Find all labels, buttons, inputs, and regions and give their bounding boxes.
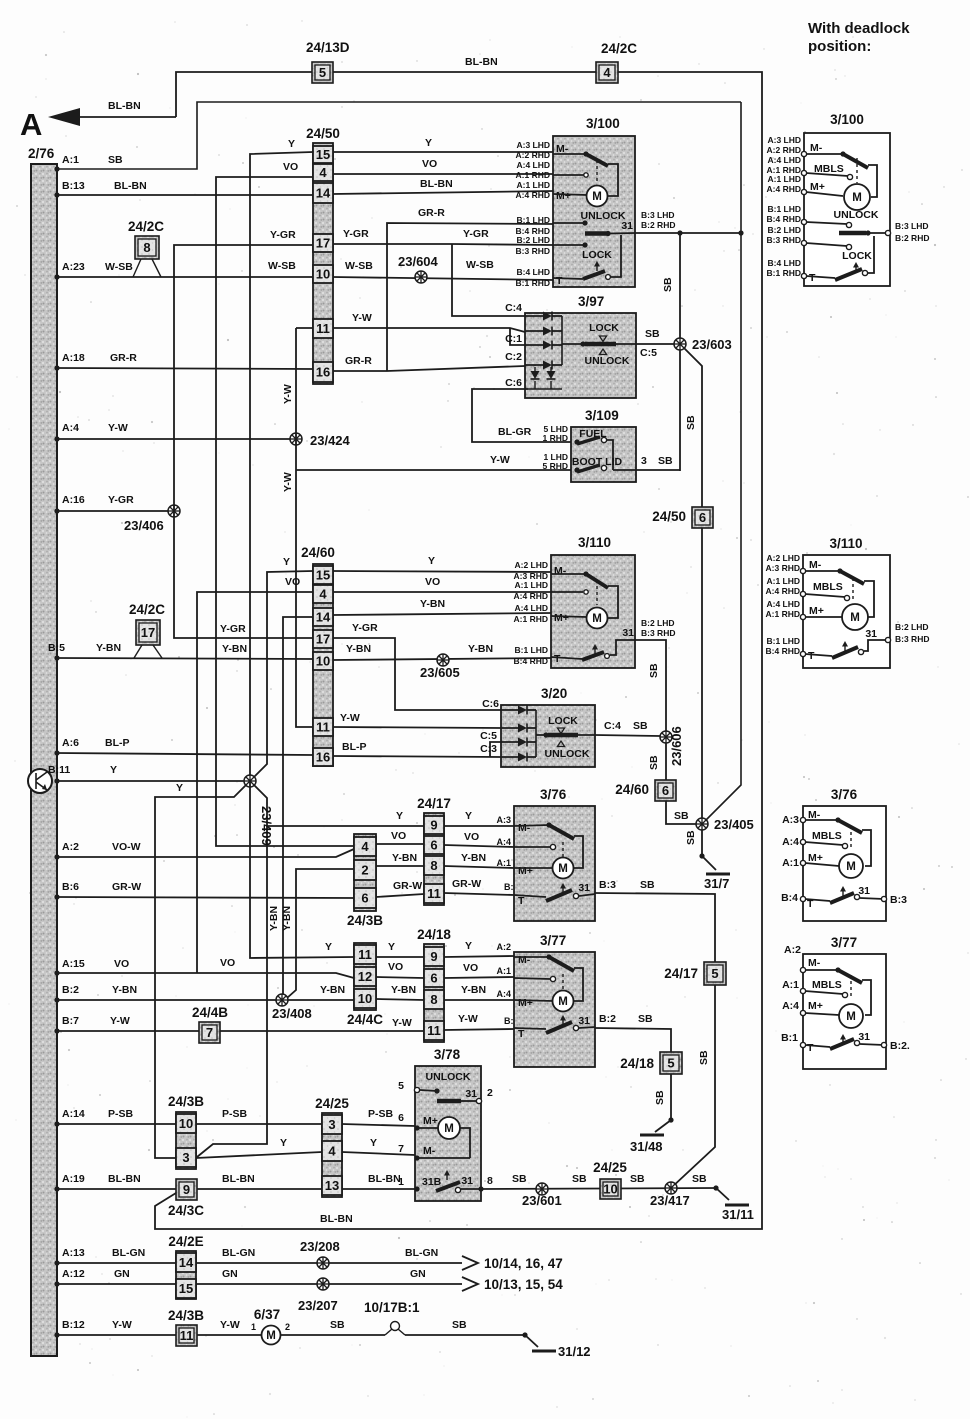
svg-text:4: 4 <box>319 587 327 602</box>
svg-text:SB: SB <box>698 1050 710 1065</box>
svg-text:M+: M+ <box>810 181 825 193</box>
wire B:13 BL-BN to 24/50-14 <box>54 180 313 198</box>
svg-text:10/13, 15, 54: 10/13, 15, 54 <box>484 1277 563 1292</box>
svg-text:SB: SB <box>330 1319 345 1331</box>
svg-text:3/110: 3/110 <box>578 535 611 550</box>
svg-text:8: 8 <box>430 992 437 1007</box>
connector 24/18 pin 5 (inline) <box>620 1052 682 1074</box>
svg-text:GN: GN <box>410 1268 426 1280</box>
svg-text:1: 1 <box>251 1322 256 1332</box>
svg-text:SB: SB <box>512 1173 527 1185</box>
svg-text:SB: SB <box>685 830 697 845</box>
wire A:4 Y-W to splice 23/424 <box>54 422 296 442</box>
wire VO 24/50-4 to 3/100 <box>333 158 553 174</box>
svg-text:24/4B: 24/4B <box>192 1005 228 1020</box>
svg-text:M-: M- <box>518 822 531 834</box>
wire Y 24/50-15 to 3/100 M- <box>333 137 553 152</box>
svg-text:Y-BN: Y-BN <box>346 643 371 655</box>
svg-text:M+: M+ <box>518 997 533 1009</box>
connector 24/2C pin 17 with legs <box>129 602 165 658</box>
wire 3/20 C:4 output SB to splice 23/606 <box>595 720 660 736</box>
wire A:1 SB to right side <box>54 102 741 172</box>
wire Y-BN riser 24/3B-2 down to B:2 row <box>281 869 354 998</box>
svg-text:23/605: 23/605 <box>420 665 460 680</box>
svg-text:SB: SB <box>633 720 648 732</box>
svg-text:T: T <box>807 1042 814 1054</box>
wire SB 23/606 down to 24/60-6 and 23/405 <box>648 743 702 824</box>
svg-text:B:3 RHD: B:3 RHD <box>895 634 929 644</box>
svg-text:6: 6 <box>662 783 669 798</box>
svg-text:SB: SB <box>658 455 673 467</box>
connector strip 24/50 <box>306 126 340 384</box>
svg-text:BL-BN: BL-BN <box>320 1213 353 1225</box>
splice 23/408 <box>272 994 312 1021</box>
svg-text:Y-BN: Y-BN <box>281 906 293 931</box>
node A arrow <box>20 100 176 142</box>
svg-text:1: 1 <box>398 1176 404 1188</box>
svg-text:Y-W: Y-W <box>112 1319 132 1331</box>
svg-text:10: 10 <box>358 991 372 1006</box>
svg-text:10: 10 <box>179 1116 193 1131</box>
svg-text:31: 31 <box>622 627 634 639</box>
svg-text:24/3B: 24/3B <box>347 913 383 928</box>
svg-text:Y-W: Y-W <box>392 1017 412 1029</box>
svg-text:24/4C: 24/4C <box>347 1012 383 1027</box>
svg-text:M: M <box>444 1123 454 1135</box>
wire Y-GR 24/60-17 to 3/20 C:6 <box>333 622 501 710</box>
wire Y branch to 24/60-15 <box>250 556 313 781</box>
svg-text:A:23: A:23 <box>62 261 85 273</box>
wire 3/78 output 8 SB to splices and ground 31/11 <box>481 1173 716 1189</box>
svg-text:BL-GN: BL-GN <box>222 1247 255 1259</box>
actuator 3/110 with deadlock <box>766 536 930 668</box>
connector strip 24/2E (cells 14,15) <box>168 1234 203 1299</box>
svg-text:5: 5 <box>711 966 718 981</box>
wire 3/77 output B:2 SB to 24/18-5 and ground 31/48 <box>595 1013 671 1052</box>
wire Y-BN 24/17-8 to 3/76 M+ <box>444 852 514 868</box>
svg-text:A:1: A:1 <box>62 154 79 166</box>
svg-text:A:2: A:2 <box>784 944 801 956</box>
wire BL-P 24/60-16 to 3/20 C:3 <box>333 741 501 757</box>
splice 23/406 <box>124 505 180 533</box>
svg-text:LOCK: LOCK <box>589 322 619 334</box>
wire BL-BN outer loop (top / right / bottom) <box>155 56 762 1229</box>
svg-text:14: 14 <box>179 1255 194 1270</box>
svg-text:M+: M+ <box>556 190 571 202</box>
connector 24/2C pin 4 (inline, top) <box>596 41 637 83</box>
svg-text:B:2: B:2 <box>599 1013 616 1025</box>
wire SB to ground 31/12 <box>405 1319 538 1347</box>
svg-text:VO: VO <box>285 576 300 588</box>
wire A:15 VO to 24/4C-12 <box>54 957 354 978</box>
svg-text:SB: SB <box>630 1173 645 1185</box>
symbol on bar (sensor) at B:11 <box>28 769 52 793</box>
svg-text:VO: VO <box>391 830 406 842</box>
svg-text:B:1 LHD: B:1 LHD <box>514 645 548 655</box>
svg-text:Y-GR: Y-GR <box>343 228 369 240</box>
wire BL-BN 24/25-13 to 3/78 pin 1 <box>342 1173 415 1189</box>
svg-text:Y-W: Y-W <box>458 1013 478 1025</box>
svg-text:Y-BN: Y-BN <box>461 984 486 996</box>
svg-text:A:2: A:2 <box>62 841 79 853</box>
svg-text:GN: GN <box>114 1268 130 1280</box>
svg-text:15: 15 <box>316 147 330 162</box>
svg-text:Y: Y <box>396 810 403 822</box>
wire Y-BN 24/4C-10 to 24/18-8 <box>376 984 424 1000</box>
ground 31/7 <box>704 874 730 891</box>
svg-text:SB: SB <box>572 1173 587 1185</box>
svg-text:2: 2 <box>361 863 368 878</box>
wire A:23 W-SB to 24/50-10 <box>54 260 313 280</box>
svg-text:A:4: A:4 <box>496 989 511 999</box>
svg-text:B:3: B:3 <box>890 894 907 906</box>
svg-text:A:13: A:13 <box>62 1247 85 1259</box>
connector strip 24/60 <box>301 545 335 766</box>
svg-text:17: 17 <box>141 625 155 640</box>
svg-text:3/77: 3/77 <box>540 933 566 948</box>
svg-text:8: 8 <box>487 1175 493 1187</box>
svg-text:C:5: C:5 <box>480 730 497 742</box>
wire BL-BN 24/3C-9 to 24/25-13 <box>197 1173 322 1189</box>
svg-text:4: 4 <box>319 165 327 180</box>
svg-text:B:2 LHD: B:2 LHD <box>516 235 550 245</box>
actuator 3/76 (left rear door lock motor) <box>496 787 595 921</box>
svg-text:A:1 RHD: A:1 RHD <box>516 170 550 180</box>
svg-text:B:4 LHD: B:4 LHD <box>516 267 550 277</box>
svg-text:Y: Y <box>288 138 295 150</box>
splice 23/603 <box>674 337 732 352</box>
svg-text:Y: Y <box>465 810 472 822</box>
svg-text:24/3C: 24/3C <box>168 1203 204 1218</box>
wire W-SB 24/50-10 to 3/100 T <box>333 259 553 280</box>
svg-text:Y-GR: Y-GR <box>108 494 134 506</box>
svg-text:23/406: 23/406 <box>124 518 164 533</box>
svg-text:M-: M- <box>518 954 531 966</box>
svg-text:A:1 LHD: A:1 LHD <box>767 174 801 184</box>
svg-text:Y-BN: Y-BN <box>461 852 486 864</box>
svg-text:SB: SB <box>654 1090 666 1105</box>
svg-text:SB: SB <box>662 277 674 292</box>
svg-text:B:1 LHD: B:1 LHD <box>766 636 800 646</box>
svg-text:M: M <box>558 863 568 875</box>
connector 24/3B pin 11 (inline) <box>168 1308 204 1346</box>
svg-text:P-SB: P-SB <box>222 1108 248 1120</box>
svg-text:23/409: 23/409 <box>259 806 274 846</box>
svg-text:Y: Y <box>465 940 472 952</box>
svg-text:BL-BN: BL-BN <box>368 1173 401 1185</box>
wire Y-W branch to 3/109 BOOT LID <box>296 454 571 470</box>
svg-text:B:2 LHD: B:2 LHD <box>767 225 801 235</box>
svg-text:Y-BN: Y-BN <box>96 642 121 654</box>
svg-text:M+: M+ <box>809 605 824 617</box>
splice 23/405 <box>696 817 754 832</box>
svg-text:BL-BN: BL-BN <box>108 100 141 112</box>
splice 23/605 <box>420 654 460 680</box>
svg-text:23/604: 23/604 <box>398 254 439 269</box>
wire BL-GR 3/97 C:6 to 3/109 FUEL <box>472 389 571 442</box>
svg-text:B:1 RHD: B:1 RHD <box>516 278 550 288</box>
svg-text:Y-W: Y-W <box>340 712 360 724</box>
wire 3/110 output 31 SB to splice 23/606 <box>635 618 675 731</box>
svg-text:10/14, 16, 47: 10/14, 16, 47 <box>484 1256 563 1271</box>
svg-text:15: 15 <box>316 568 330 583</box>
svg-text:Y-BN: Y-BN <box>268 906 280 931</box>
wire VO 24/4C-12 to 24/18-6 <box>376 961 424 978</box>
wire B:7 Y-W to 24/18-11 <box>54 1015 199 1034</box>
svg-text:LOCK: LOCK <box>842 250 872 262</box>
wire A:13 BL-GN row <box>54 1247 176 1266</box>
svg-text:9: 9 <box>183 1182 190 1197</box>
svg-text:5 RHD: 5 RHD <box>542 461 568 471</box>
wire Y riser continue to 24/4C-11 <box>250 781 354 958</box>
svg-text:C:6: C:6 <box>482 698 499 710</box>
connector 24/25 pin 10 (inline) <box>593 1160 627 1199</box>
motor 6/37 (aerial) <box>197 1307 290 1345</box>
svg-text:B:3 RHD: B:3 RHD <box>516 246 550 256</box>
wire Y-W 24/4B-7 to 24/18-11 <box>220 1017 424 1031</box>
svg-text:Y: Y <box>110 764 117 776</box>
wire Y-BN riser 24/60-14 to splice 23/408 <box>268 617 313 1000</box>
svg-text:Y-W: Y-W <box>220 1319 240 1331</box>
wire BL-GN to arrow 10/14,16,47 <box>196 1247 563 1271</box>
svg-text:A:4 LHD: A:4 LHD <box>516 160 550 170</box>
svg-text:BL-P: BL-P <box>105 737 130 749</box>
svg-text:With deadlock: With deadlock <box>808 20 910 37</box>
svg-text:24/2E: 24/2E <box>168 1234 203 1249</box>
wire Y 24/3B-3 to 24/25-4 <box>196 1137 322 1158</box>
svg-text:11: 11 <box>316 321 330 336</box>
svg-text:12: 12 <box>358 969 372 984</box>
svg-text:5: 5 <box>319 65 326 80</box>
svg-text:A:4 RHD: A:4 RHD <box>514 591 548 601</box>
svg-text:6: 6 <box>699 510 706 525</box>
svg-text:MBLS: MBLS <box>812 979 842 991</box>
svg-text:A:4: A:4 <box>496 837 511 847</box>
svg-text:6: 6 <box>361 891 368 906</box>
svg-text:B:3 RHD: B:3 RHD <box>641 628 675 638</box>
svg-text:10: 10 <box>316 267 330 282</box>
svg-text:3/76: 3/76 <box>540 787 567 802</box>
svg-text:24/18: 24/18 <box>417 927 451 942</box>
wire SB from 23/603 down to boot lid row <box>679 350 681 471</box>
svg-text:VO: VO <box>463 962 478 974</box>
svg-text:24/60: 24/60 <box>301 545 335 560</box>
wire Y branch left to 24/3B-3 riser <box>155 781 250 1158</box>
svg-text:8: 8 <box>143 240 150 255</box>
svg-text:VO: VO <box>220 957 235 969</box>
svg-text:A:4 RHD: A:4 RHD <box>766 586 800 596</box>
svg-text:UNLOCK: UNLOCK <box>585 355 630 367</box>
svg-text:UNLOCK: UNLOCK <box>545 748 590 760</box>
ground 31/48 <box>630 1135 664 1154</box>
svg-text:BL-P: BL-P <box>342 741 367 753</box>
svg-text:W-SB: W-SB <box>268 260 296 272</box>
svg-text:A:1: A:1 <box>782 979 799 991</box>
svg-text:C:2: C:2 <box>505 351 522 363</box>
svg-text:24/60: 24/60 <box>615 782 649 797</box>
svg-text:A:4 RHD: A:4 RHD <box>767 184 801 194</box>
svg-text:31/11: 31/11 <box>722 1207 754 1222</box>
svg-text:31: 31 <box>865 628 877 640</box>
actuator 3/77 (right rear door lock motor) <box>496 933 595 1067</box>
svg-text:11: 11 <box>427 886 441 901</box>
svg-text:C:4: C:4 <box>604 720 621 732</box>
svg-text:9: 9 <box>430 818 437 833</box>
svg-text:B:2 LHD: B:2 LHD <box>641 618 675 628</box>
svg-text:GR-W: GR-W <box>112 881 141 893</box>
svg-text:23/417: 23/417 <box>650 1193 690 1208</box>
svg-text:SB: SB <box>648 755 660 770</box>
svg-text:VO: VO <box>114 958 129 970</box>
wire SB from 23/603 diagonal to long vertical <box>684 348 702 824</box>
svg-text:BL-BN: BL-BN <box>465 56 498 68</box>
svg-text:B:2 RHD: B:2 RHD <box>641 220 675 230</box>
svg-text:SB: SB <box>645 328 660 340</box>
svg-text:B:11: B:11 <box>48 764 70 776</box>
connector 24/17 pin 5 (inline) <box>664 962 726 985</box>
svg-text:Y-BN: Y-BN <box>420 598 445 610</box>
svg-text:17: 17 <box>316 632 330 647</box>
svg-text:A:4 LHD: A:4 LHD <box>766 599 800 609</box>
connector strip 24/3B bottom (cells 10,3) <box>168 1094 204 1169</box>
svg-text:M+: M+ <box>554 612 569 624</box>
connector strip 24/3B (cells 4,2,6) <box>347 834 383 928</box>
svg-text:2: 2 <box>487 1087 493 1099</box>
svg-text:SB: SB <box>648 663 660 678</box>
wire Y-GR 24/50-17 to 3/100 with branch to 3/97 C:4 <box>333 228 553 316</box>
svg-text:GR-R: GR-R <box>345 355 372 367</box>
svg-text:A:1 RHD: A:1 RHD <box>514 614 548 624</box>
svg-text:5: 5 <box>398 1080 404 1092</box>
svg-text:W-SB: W-SB <box>466 259 494 271</box>
wire 3/76 output B:3 SB to 24/17-5 and 23/417 <box>595 879 715 962</box>
svg-text:31B: 31B <box>422 1176 442 1188</box>
diode unit 3/97 (central locking) <box>505 294 636 398</box>
wire VO 24/18-6 to 3/77 <box>444 962 514 978</box>
svg-text:GR-R: GR-R <box>418 207 445 219</box>
svg-text:B:1: B:1 <box>781 1032 798 1044</box>
svg-text:SB: SB <box>638 1013 653 1025</box>
svg-text:GR-R: GR-R <box>110 352 137 364</box>
svg-text:A:1 LHD: A:1 LHD <box>516 180 550 190</box>
wire VO riser 24/50-4 to 24/3B-4 <box>216 161 354 846</box>
note: with deadlock position <box>808 20 910 55</box>
svg-text:A: A <box>20 107 42 142</box>
svg-text:UNLOCK: UNLOCK <box>426 1071 471 1083</box>
svg-text:24/17: 24/17 <box>417 796 451 811</box>
svg-text:31: 31 <box>578 882 590 894</box>
splice 23/424 <box>290 433 351 448</box>
svg-text:A:3 LHD: A:3 LHD <box>767 135 801 145</box>
svg-text:23/606: 23/606 <box>669 726 684 766</box>
svg-text:VO: VO <box>422 158 437 170</box>
wire A:19 BL-BN to 24/3C-9 <box>54 1173 176 1192</box>
svg-text:Y-BN: Y-BN <box>112 984 137 996</box>
actuator 3/76 with deadlock <box>781 787 907 921</box>
svg-text:A:12: A:12 <box>62 1268 85 1280</box>
svg-text:C:1: C:1 <box>505 333 522 345</box>
svg-text:31: 31 <box>858 885 870 897</box>
svg-text:A:1: A:1 <box>496 858 511 868</box>
svg-text:31: 31 <box>465 1088 477 1100</box>
svg-text:SB: SB <box>692 1173 707 1185</box>
connector strip 24/25 (cells 3,4,13) <box>315 1096 349 1197</box>
svg-text:2: 2 <box>285 1322 290 1332</box>
svg-text:BL-BN: BL-BN <box>108 1173 141 1185</box>
svg-text:31: 31 <box>578 1015 590 1027</box>
splice 23/606 <box>660 726 684 766</box>
wire B:12 Y-W row <box>54 1319 176 1338</box>
svg-text:5: 5 <box>667 1056 674 1071</box>
wire Y-BN 24/18-8 to 3/77 M+ <box>444 984 514 1000</box>
svg-text:16: 16 <box>316 365 330 380</box>
svg-text:Y: Y <box>283 556 290 568</box>
svg-text:3: 3 <box>641 455 647 467</box>
svg-text:24/3B: 24/3B <box>168 1094 204 1109</box>
svg-text:A:16: A:16 <box>62 494 85 506</box>
svg-text:A:2 RHD: A:2 RHD <box>516 150 550 160</box>
svg-text:M+: M+ <box>423 1115 438 1127</box>
svg-text:24/50: 24/50 <box>306 126 340 141</box>
svg-text:B:4 RHD: B:4 RHD <box>514 656 548 666</box>
svg-text:A:4: A:4 <box>782 1000 799 1012</box>
svg-text:GR-W: GR-W <box>452 878 481 890</box>
wire A:6 BL-P to 24/60-16 <box>54 737 313 756</box>
svg-text:13: 13 <box>325 1178 339 1193</box>
svg-text:A:3 RHD: A:3 RHD <box>766 563 800 573</box>
svg-text:31/7: 31/7 <box>704 876 729 891</box>
svg-text:3/109: 3/109 <box>585 408 619 423</box>
svg-text:A:4 LHD: A:4 LHD <box>767 155 801 165</box>
svg-text:24/3B: 24/3B <box>168 1308 204 1323</box>
svg-text:A:2 LHD: A:2 LHD <box>766 553 800 563</box>
svg-text:B:2 LHD: B:2 LHD <box>895 622 929 632</box>
svg-text:SB: SB <box>108 154 123 166</box>
svg-text:3/20: 3/20 <box>541 686 567 701</box>
svg-text:VO: VO <box>425 576 440 588</box>
svg-text:10: 10 <box>316 654 330 669</box>
splice 23/409 <box>244 775 274 846</box>
svg-text:11: 11 <box>427 1023 441 1038</box>
svg-text:Y-BN: Y-BN <box>222 643 247 655</box>
svg-text:M: M <box>852 192 862 204</box>
svg-text:T: T <box>808 650 815 662</box>
svg-text:6: 6 <box>430 838 437 853</box>
svg-text:23/601: 23/601 <box>522 1193 562 1208</box>
wire GR-R 24/50-16 to 3/97 C:2 with riser to 3/100 UNLOCK <box>333 207 553 371</box>
svg-text:A:2 LHD: A:2 LHD <box>514 560 548 570</box>
svg-text:M-: M- <box>810 142 823 154</box>
wire A:14 P-SB to 24/3B-10 <box>54 1108 176 1127</box>
wire Y 24/17-9 to 3/76 M- <box>444 810 514 826</box>
svg-text:3: 3 <box>182 1150 189 1165</box>
svg-text:31/48: 31/48 <box>630 1139 663 1154</box>
svg-text:14: 14 <box>316 186 331 201</box>
wire Y riser to 24/50-15 <box>250 138 313 781</box>
svg-text:W-SB: W-SB <box>345 260 373 272</box>
svg-text:Y: Y <box>428 555 435 567</box>
svg-text:14: 14 <box>316 610 331 625</box>
splice 23/208 <box>300 1239 340 1269</box>
svg-text:VO-W: VO-W <box>112 841 141 853</box>
svg-text:UNLOCK: UNLOCK <box>834 209 879 221</box>
svg-text:A:1: A:1 <box>782 857 799 869</box>
svg-text:T: T <box>554 653 561 665</box>
svg-text:Y-GR: Y-GR <box>270 229 296 241</box>
svg-text:6: 6 <box>430 971 437 986</box>
connector 24/3C pin 9 (inline) <box>168 1179 204 1218</box>
connector bar 2/76 <box>28 146 57 1356</box>
